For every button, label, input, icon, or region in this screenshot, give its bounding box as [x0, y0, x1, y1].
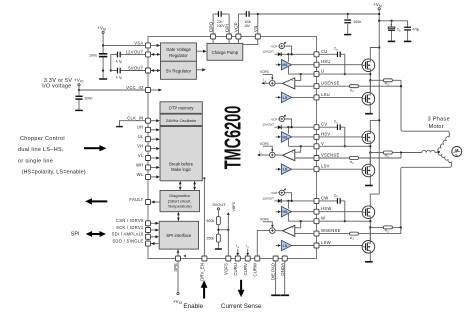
svg-text:VH: VH: [137, 144, 143, 149]
svg-text:(HS=polarity, LS=enable): (HS=polarity, LS=enable): [22, 170, 86, 176]
svg-text:VOFS: VOFS: [223, 263, 228, 275]
svg-text:VOFS: VOFS: [232, 202, 236, 212]
svg-text:W: W: [321, 216, 325, 221]
svg-text:5VOUT: 5VOUT: [128, 65, 143, 70]
svg-text:Motor: Motor: [429, 124, 444, 130]
svg-text:DRV_EN: DRV_EN: [200, 263, 205, 281]
svg-text:SDO / SINGLE: SDO / SINGLE: [112, 239, 143, 244]
svg-text:USENSE: USENSE: [321, 81, 340, 86]
svg-text:IO: IO: [80, 80, 84, 84]
svg-text:IO: IO: [179, 301, 183, 305]
svg-text:UH: UH: [137, 125, 144, 130]
svg-text:SPE: SPE: [173, 263, 178, 272]
svg-text:Enable: Enable: [183, 303, 203, 310]
svg-text:LS: LS: [283, 244, 288, 248]
svg-text:Charge Pump: Charge Pump: [212, 50, 239, 55]
svg-text:LSV: LSV: [321, 164, 330, 169]
svg-text:(Short circuit,: (Short circuit,: [168, 198, 192, 203]
svg-text:CURW: CURW: [252, 262, 257, 276]
svg-text:Regulator: Regulator: [169, 53, 188, 58]
svg-text:4.7µ: 4.7µ: [116, 59, 122, 63]
svg-text:LS: LS: [283, 96, 288, 100]
svg-text:or single line: or single line: [18, 158, 53, 164]
svg-text:Temperature): Temperature): [168, 204, 192, 209]
svg-text:SDI / AMPLx10: SDI / AMPLx10: [112, 232, 144, 237]
svg-text:Gate Voltage: Gate Voltage: [166, 47, 191, 52]
svg-text:LSW: LSW: [321, 240, 331, 245]
svg-text:VCP: VCP: [271, 45, 277, 49]
svg-text:+: +: [292, 226, 294, 230]
svg-text:OTP memory: OTP memory: [169, 106, 195, 111]
svg-text:U: U: [321, 69, 324, 74]
svg-text:5VOUT: 5VOUT: [212, 202, 226, 207]
svg-text:100n: 100n: [84, 96, 92, 100]
svg-text:HSU: HSU: [321, 59, 331, 64]
svg-text:CSN / IDRV0: CSN / IDRV0: [116, 218, 144, 223]
svg-text:12VOUT: 12VOUT: [126, 49, 144, 54]
svg-text:Make logic: Make logic: [171, 167, 191, 172]
svg-text:SPI interface: SPI interface: [166, 233, 192, 238]
svg-text:VOFS: VOFS: [260, 70, 269, 74]
svg-text:WSENSE: WSENSE: [321, 228, 341, 233]
svg-text:Diagnostics: Diagnostics: [169, 193, 190, 198]
svg-text:VSENSE: VSENSE: [321, 153, 340, 158]
svg-text:100V: 100V: [217, 24, 225, 28]
svg-text:CV: CV: [321, 122, 327, 127]
svg-text:5V Regulator: 5V Regulator: [166, 68, 192, 73]
svg-text:4.7µ: 4.7µ: [116, 75, 122, 79]
svg-text:SCK / IDRV1: SCK / IDRV1: [116, 225, 144, 230]
svg-text:HSV: HSV: [321, 131, 330, 136]
svg-text:FAULT: FAULT: [129, 197, 143, 202]
svg-text:16V: 16V: [244, 24, 251, 28]
svg-text:VCC_IO: VCC_IO: [126, 85, 144, 90]
svg-text:100n: 100n: [353, 20, 361, 24]
svg-text:470µ: 470µ: [412, 28, 419, 32]
svg-text:Chopper Control: Chopper Control: [20, 136, 65, 142]
svg-text:Break before: Break before: [169, 161, 194, 166]
svg-text:+: +: [292, 151, 294, 155]
svg-text:WH: WH: [136, 162, 144, 167]
svg-text:DIE PAD: DIE PAD: [271, 263, 276, 280]
svg-text:CW: CW: [321, 195, 328, 200]
svg-text:HS: HS: [282, 135, 288, 139]
svg-text:HS: HS: [282, 63, 288, 67]
svg-text:I/O voltage: I/O voltage: [42, 84, 71, 90]
svg-text:VCP: VCP: [271, 117, 277, 121]
svg-text:CU: CU: [321, 49, 328, 54]
svg-text:HS: HS: [282, 210, 288, 214]
svg-text:CLK_IN: CLK_IN: [127, 116, 143, 121]
svg-text:VOFS: VOFS: [260, 217, 269, 221]
svg-text:HSW: HSW: [321, 206, 332, 211]
svg-text:+: +: [390, 23, 392, 27]
svg-text:12VOUT: 12VOUT: [262, 196, 274, 200]
svg-text:SPI: SPI: [71, 231, 80, 237]
svg-text:VSA: VSA: [134, 40, 143, 45]
svg-text:24MHz Oscillator: 24MHz Oscillator: [166, 118, 197, 123]
svg-text:VCP: VCP: [271, 191, 277, 195]
svg-text:CURU: CURU: [233, 263, 238, 276]
svg-text:+: +: [292, 79, 294, 83]
svg-text:CURV: CURV: [243, 263, 248, 275]
svg-text:3~: 3~: [455, 153, 459, 157]
svg-text:LS: LS: [283, 168, 288, 172]
svg-text:LSU: LSU: [321, 92, 330, 97]
svg-text:12VOUT: 12VOUT: [262, 123, 274, 127]
svg-text:Current Sense: Current Sense: [221, 303, 262, 310]
svg-text:GNDA: GNDA: [280, 263, 285, 276]
svg-text:UL: UL: [138, 134, 144, 139]
svg-text:VOFS: VOFS: [260, 142, 269, 146]
svg-text:V: V: [321, 141, 324, 146]
svg-text:12VOUT: 12VOUT: [262, 50, 274, 54]
svg-text:3 Phase: 3 Phase: [428, 117, 450, 123]
svg-text:250k: 250k: [206, 237, 214, 241]
svg-text:100n: 100n: [89, 54, 97, 58]
svg-text:VL: VL: [138, 153, 144, 158]
svg-text:TMC6200: TMC6200: [221, 106, 246, 170]
svg-text:dual line LS–HS,: dual line LS–HS,: [18, 147, 64, 153]
svg-text:WL: WL: [137, 172, 144, 177]
svg-text:500k: 500k: [206, 219, 214, 223]
